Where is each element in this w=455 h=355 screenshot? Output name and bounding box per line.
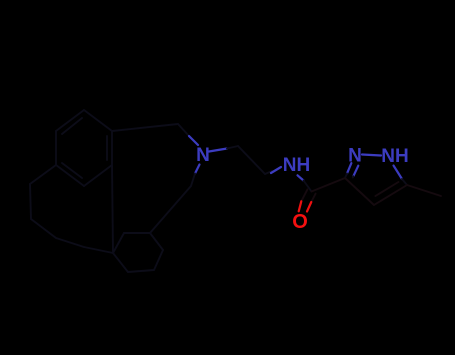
svg-text:N: N xyxy=(196,145,210,166)
benzene inner double 2 xyxy=(62,163,82,178)
connector C to J xyxy=(112,165,113,253)
benzene ring left: edge E-F xyxy=(55,131,57,165)
bond carbonyl to C3 xyxy=(312,178,346,192)
lower ring edge K-V6 xyxy=(124,232,150,234)
C=O double line 2 dark top xyxy=(311,194,315,202)
bond P2 to NH dark half xyxy=(265,171,272,174)
lower ring edge I-J xyxy=(113,253,128,272)
C3=N2 double line 1 blue xyxy=(347,163,351,173)
benzene inner double 1 xyxy=(106,136,108,160)
benzene ring left: edge A-B xyxy=(84,110,112,131)
benzene ring left: edge C-D xyxy=(84,165,112,186)
C4=C5 inner double xyxy=(375,182,398,196)
long bond B to V1 xyxy=(112,124,178,131)
svg-text:NH: NH xyxy=(283,155,310,176)
far left edge L2-L3 xyxy=(31,219,56,238)
far left edge L1-L2 xyxy=(30,184,31,219)
svg-text:NH: NH xyxy=(381,146,408,167)
benzene ring left: edge B-C xyxy=(111,131,113,165)
C=O double line 1 dark top xyxy=(301,189,307,201)
svg-text:N: N xyxy=(348,146,362,167)
C3=N2 double line 2 dark xyxy=(352,176,355,177)
C=O double line 2 red bottom xyxy=(307,202,311,212)
svg-text:O: O xyxy=(292,211,308,233)
bond N to P1 dark half xyxy=(227,146,238,149)
benzene inner double 3 xyxy=(62,118,82,134)
bond N1 to C5 blue stub xyxy=(394,166,403,180)
far left edge L3-L4 xyxy=(56,238,84,247)
bond N1 to C5 dark half xyxy=(402,179,407,185)
lower ring edge G-H xyxy=(154,250,163,270)
bond P1 to P2 xyxy=(238,146,265,174)
C3=N2 double line 2 blue xyxy=(353,166,358,177)
bond N to V5 blue stub xyxy=(195,165,200,174)
benzene ring left: edge D-E xyxy=(56,165,84,186)
bond N2 to N1 blue xyxy=(362,155,381,156)
far left edge L4-J xyxy=(84,247,113,253)
lower ring edge J-K xyxy=(113,233,124,253)
bond NH to carbonyl dark half xyxy=(304,181,312,192)
C3=N2 double line 1 dark xyxy=(345,174,347,179)
bond C5 to C4 xyxy=(374,185,407,205)
bond NH to carbonyl blue stub xyxy=(298,175,304,180)
bond N to V5 dark half xyxy=(191,174,195,187)
lower ring edge H-I xyxy=(128,270,154,272)
far left edge E-L1 xyxy=(30,165,56,184)
bond V1 to N blue stub xyxy=(189,136,198,145)
bond C5 to methyl xyxy=(407,185,441,196)
lower ring edge V6-G xyxy=(150,233,163,250)
benzene ring left: edge F-A xyxy=(56,110,84,131)
bond V5 to V6 xyxy=(150,186,191,233)
C=O double line 1 red bottom xyxy=(299,201,302,211)
bond V1 to N dark half xyxy=(178,124,189,136)
bond C4 to C3 xyxy=(345,178,374,205)
bond N to P1 blue stub xyxy=(209,149,227,152)
bond P2 to NH blue stub xyxy=(271,167,281,173)
